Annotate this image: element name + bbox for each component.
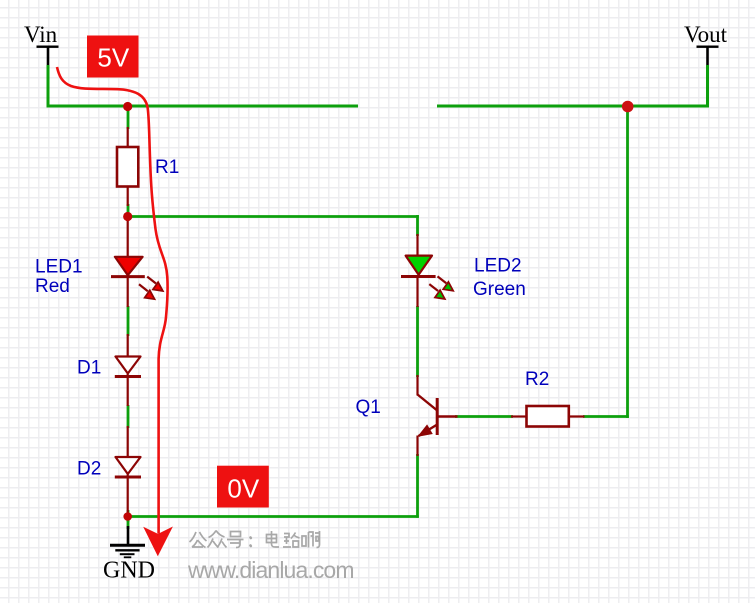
wire LED2 anode segment xyxy=(416,215,419,236)
node Vout terminal xyxy=(684,22,728,67)
啊 xyxy=(302,531,320,548)
svg-text:0V: 0V xyxy=(227,474,259,504)
svg-text:Green: Green xyxy=(473,279,526,300)
wire D1 to D2 segment xyxy=(127,405,130,428)
公 xyxy=(190,532,207,548)
wire Q1 base to R2 xyxy=(455,415,513,418)
diode D2 xyxy=(115,426,141,513)
svg-text:Vout: Vout xyxy=(684,22,728,47)
resistor R1 xyxy=(117,127,138,206)
junction node below R1 xyxy=(123,212,132,221)
svg-text:LED2: LED2 xyxy=(474,256,522,277)
svg-text:www.dianlua.com: www.dianlua.com xyxy=(187,557,355,583)
current path red curve xyxy=(57,67,168,534)
current path arrowhead xyxy=(143,527,173,557)
wire R1 bottom segment xyxy=(127,204,130,217)
wire Q1 emitter to bottom xyxy=(416,454,419,518)
wire Vout vertical xyxy=(706,65,709,108)
wire top-right horizontal xyxy=(437,105,709,108)
label 0V badge xyxy=(217,466,269,508)
svg-text:GND: GND xyxy=(103,558,155,584)
svg-text:D2: D2 xyxy=(77,459,101,480)
wire top-left horizontal xyxy=(47,105,359,108)
svg-text:Vin: Vin xyxy=(24,22,58,47)
junction node at Vin rail / R1 xyxy=(123,102,132,111)
wire R2 right to column xyxy=(583,415,629,418)
路 xyxy=(283,533,300,548)
wire Vin vertical xyxy=(47,65,50,106)
号 xyxy=(227,532,244,548)
label 5V badge xyxy=(87,36,139,78)
svg-text:Red: Red xyxy=(35,276,70,297)
wire middle horizontal xyxy=(128,215,419,218)
svg-text:Q1: Q1 xyxy=(356,397,381,418)
svg-text:R2: R2 xyxy=(525,369,549,390)
svg-text:D1: D1 xyxy=(77,358,101,379)
wire R1 top segment xyxy=(127,106,130,129)
ground xyxy=(103,526,155,584)
电 xyxy=(267,531,280,547)
watermark CJK line (公众号: 电路啊) drawn strokes xyxy=(190,531,321,548)
svg-text:LED1: LED1 xyxy=(35,257,83,278)
wire LED1 to D1 segment xyxy=(127,306,130,336)
wire D2 to ground node xyxy=(127,510,130,522)
fullwidth colon xyxy=(249,538,252,547)
transistor Q1 xyxy=(418,375,458,456)
junction node at ground xyxy=(123,512,132,521)
LED diode LED1 xyxy=(111,215,163,307)
wire ground stub xyxy=(127,519,130,529)
wire bottom horizontal xyxy=(128,515,419,518)
svg-text:R1: R1 xyxy=(155,157,179,178)
wire right column vertical xyxy=(626,106,629,418)
wire LED2 cathode to Q1 collector xyxy=(416,306,419,377)
LED diode LED2 xyxy=(401,234,453,307)
svg-text:5V: 5V xyxy=(97,43,129,73)
resistor R2 xyxy=(511,406,585,427)
node Vin terminal xyxy=(24,22,59,67)
diode D1 xyxy=(115,334,141,406)
众 xyxy=(208,531,227,548)
junction node at Vout rail xyxy=(622,101,634,113)
